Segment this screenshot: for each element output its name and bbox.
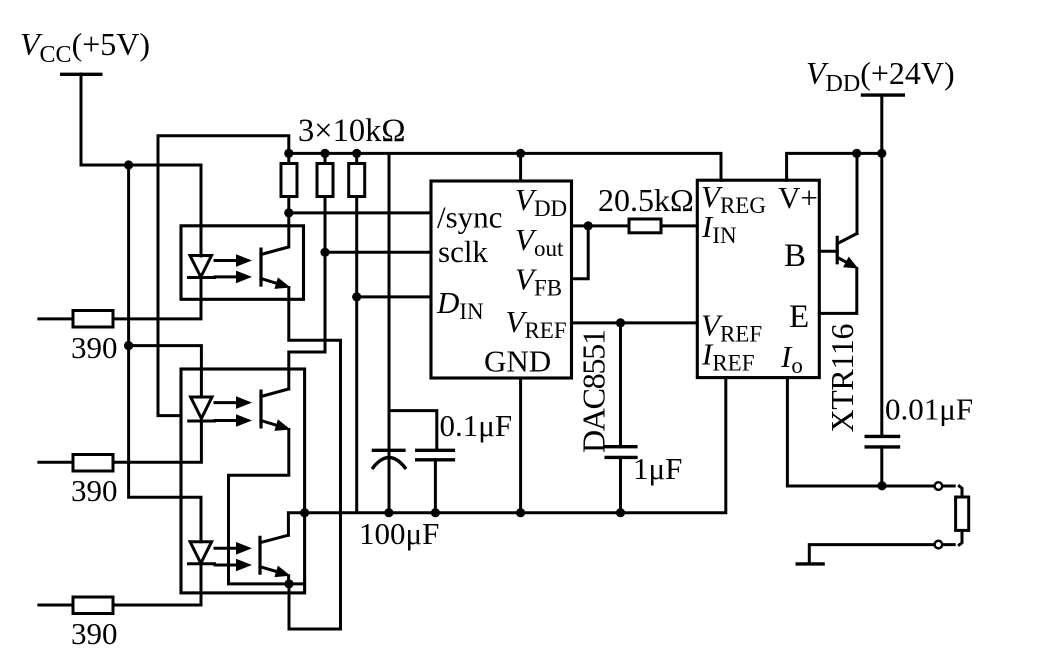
svg-text:E: E <box>789 299 809 335</box>
svg-text:3×10kΩ: 3×10kΩ <box>298 113 405 149</box>
svg-text:0.1μF: 0.1μF <box>440 408 513 443</box>
svg-text:B: B <box>784 238 806 274</box>
svg-text:V+: V+ <box>778 180 818 215</box>
svg-text:VCC(+5V): VCC(+5V) <box>20 26 150 68</box>
svg-text:DAC8551: DAC8551 <box>576 329 612 453</box>
svg-text:/sync: /sync <box>437 200 502 235</box>
svg-text:20.5kΩ: 20.5kΩ <box>598 182 694 218</box>
svg-text:1μF: 1μF <box>633 451 682 486</box>
svg-text:0.01μF: 0.01μF <box>885 392 973 427</box>
svg-text:100μF: 100μF <box>359 516 439 551</box>
svg-text:390: 390 <box>71 473 118 508</box>
svg-text:390: 390 <box>71 330 118 365</box>
svg-text:GND: GND <box>484 344 551 379</box>
svg-text:390: 390 <box>71 616 118 651</box>
svg-text:sclk: sclk <box>438 234 488 269</box>
svg-text:XTR116: XTR116 <box>824 324 860 433</box>
